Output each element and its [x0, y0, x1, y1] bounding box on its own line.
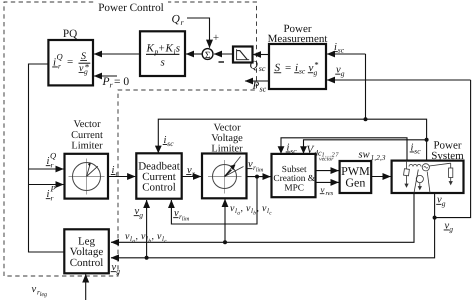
svg-text:lim: lim	[182, 216, 190, 223]
svg-text:lim: lim	[256, 167, 264, 174]
svg-text:Σ: Σ	[205, 51, 211, 61]
svg-text:Gen: Gen	[345, 175, 365, 189]
svg-text:vector: vector	[319, 157, 334, 163]
svg-text:S: S	[275, 62, 281, 74]
svg-text:s: s	[161, 57, 165, 69]
svg-text:g: g	[442, 199, 446, 208]
svg-text:sc: sc	[167, 139, 174, 148]
svg-text:g: g	[139, 210, 143, 219]
svg-text:System: System	[431, 150, 464, 162]
svg-text:P: P	[252, 80, 260, 92]
svg-text:Q: Q	[172, 14, 181, 26]
svg-text:,: ,	[152, 231, 155, 242]
svg-text:r: r	[116, 169, 119, 178]
svg-text:Current: Current	[71, 130, 103, 141]
svg-text:r: r	[51, 160, 54, 169]
svg-text:sc: sc	[259, 64, 266, 73]
svg-text:Power Control: Power Control	[98, 2, 164, 14]
svg-text:g: g	[449, 225, 453, 234]
svg-text:Measurement: Measurement	[268, 33, 328, 45]
svg-text:leg: leg	[40, 291, 47, 298]
svg-text:,: ,	[136, 231, 139, 242]
svg-text:g: g	[341, 69, 345, 78]
svg-text:PQ: PQ	[63, 28, 77, 40]
svg-text:1,2,3: 1,2,3	[371, 153, 386, 162]
svg-text:Q: Q	[57, 52, 63, 62]
svg-text:sc: sc	[299, 66, 306, 75]
svg-text:Q: Q	[50, 151, 56, 161]
svg-text:Vector: Vector	[213, 122, 241, 133]
svg-text:s: s	[176, 43, 180, 55]
svg-text:Q: Q	[250, 60, 259, 72]
svg-text:Control: Control	[70, 257, 104, 269]
svg-text:r: r	[58, 62, 61, 71]
svg-text:Voltage: Voltage	[211, 133, 243, 144]
svg-text:g: g	[116, 266, 120, 275]
svg-text:K: K	[165, 43, 174, 55]
svg-text:sw: sw	[359, 150, 370, 161]
svg-text:sc: sc	[290, 147, 297, 156]
svg-text:+: +	[213, 32, 219, 44]
svg-text:r: r	[51, 193, 54, 202]
svg-text:r: r	[192, 169, 195, 178]
svg-text:v: v	[321, 184, 325, 194]
svg-text:P: P	[102, 76, 110, 88]
svg-text:sc: sc	[414, 147, 421, 156]
svg-text:v: v	[32, 284, 37, 295]
svg-text:P: P	[50, 184, 56, 194]
svg-text:sc: sc	[338, 45, 345, 54]
svg-text:sc: sc	[260, 84, 267, 93]
svg-text:i: i	[295, 62, 298, 74]
svg-text:Limiter: Limiter	[71, 140, 103, 151]
svg-text:=: =	[285, 62, 291, 74]
svg-text:K: K	[146, 43, 155, 55]
svg-text:,: ,	[241, 203, 244, 214]
svg-text:Control: Control	[142, 181, 176, 193]
svg-text:=: =	[67, 56, 73, 68]
svg-text:,: ,	[257, 203, 260, 214]
svg-text:MPC: MPC	[284, 183, 304, 193]
svg-text:Vector: Vector	[73, 119, 101, 130]
svg-text:= 0: = 0	[114, 76, 129, 88]
svg-text:+: +	[159, 43, 165, 55]
svg-text:g: g	[84, 67, 88, 76]
svg-text:Limiter: Limiter	[211, 143, 243, 154]
svg-text:res: res	[326, 190, 334, 197]
